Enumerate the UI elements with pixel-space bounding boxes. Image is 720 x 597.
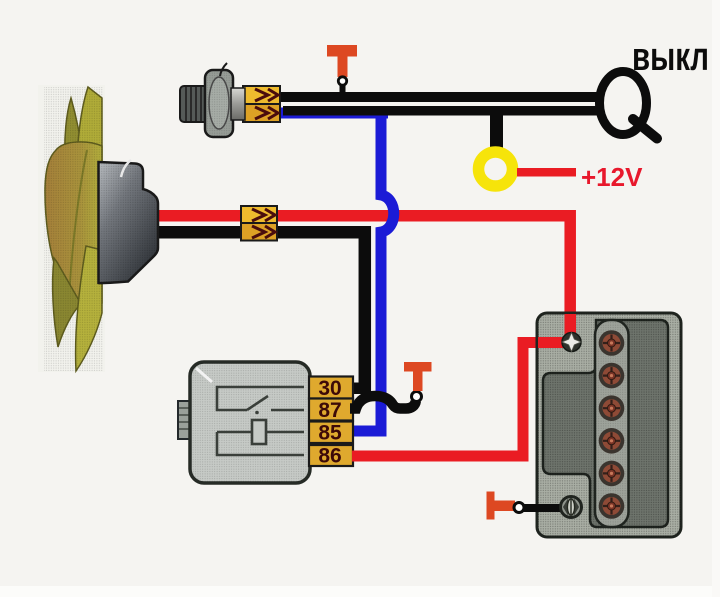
battery body xyxy=(537,313,681,537)
battery cell caps xyxy=(599,330,625,519)
fan motor xyxy=(99,160,159,283)
wire: black bottom from sensor to switch xyxy=(283,106,601,116)
relay pin 87 xyxy=(309,399,353,423)
wire: black from fan motor down to relay pin 30 xyxy=(157,232,365,394)
wire: red from fan motor to battery plus xyxy=(157,216,570,340)
wire: red lead to +12V label xyxy=(517,168,576,177)
wire: blue vertical from sensor to relay pin 85 with hop over red wire xyxy=(352,113,394,431)
ground T symbol at pin 87 xyxy=(404,362,432,391)
node: open terminal circle pin87 ground xyxy=(412,392,422,402)
relay pin 85 xyxy=(309,422,353,445)
battery plus terminal xyxy=(562,333,581,352)
wire: black stub down to +12V node xyxy=(490,107,503,152)
thermal switch sensor body xyxy=(180,63,245,137)
label выкл xyxy=(632,35,709,79)
ground T symbol bottom xyxy=(487,492,516,520)
wire: black from bottom ground to battery minus xyxy=(522,504,563,512)
svg-text:+12V: +12V xyxy=(581,162,643,192)
connector: sensor bullet connector xyxy=(243,86,280,122)
fan blades xyxy=(44,87,103,371)
ground T symbol top xyxy=(327,45,357,77)
svg-text:86: 86 xyxy=(318,445,341,468)
svg-text:85: 85 xyxy=(318,422,342,445)
label +12V xyxy=(581,162,643,192)
svg-text:87: 87 xyxy=(318,399,341,422)
battery minus terminal xyxy=(561,497,582,518)
wire: red ends overlapping battery at plus terminal xyxy=(538,314,576,348)
wire: blue horizontal from sensor connector xyxy=(277,108,388,119)
switch (выкл) ellipse with tail xyxy=(600,72,658,139)
relay pin 30 xyxy=(309,377,353,401)
node: open terminal circle bottom ground xyxy=(514,503,524,513)
relay pin 86 xyxy=(309,445,353,468)
fan shroud backdrop xyxy=(38,85,105,372)
battery cells strip xyxy=(595,320,629,527)
connector: fan motor wires connector xyxy=(241,206,277,241)
wire: pin 30 stub xyxy=(350,383,365,395)
wire: red from pin 86 to battery plus xyxy=(352,343,565,457)
wire: black from pin 87 to ground xyxy=(350,396,416,409)
relay internal schematic xyxy=(217,387,304,455)
svg-text:30: 30 xyxy=(318,377,341,400)
relay body xyxy=(178,362,310,483)
svg-text:выкл: выкл xyxy=(632,35,709,79)
node: +12V yellow ring xyxy=(479,152,513,186)
wire: black top from sensor to switch xyxy=(279,92,601,102)
node: open terminal circle under top ground xyxy=(338,77,346,93)
